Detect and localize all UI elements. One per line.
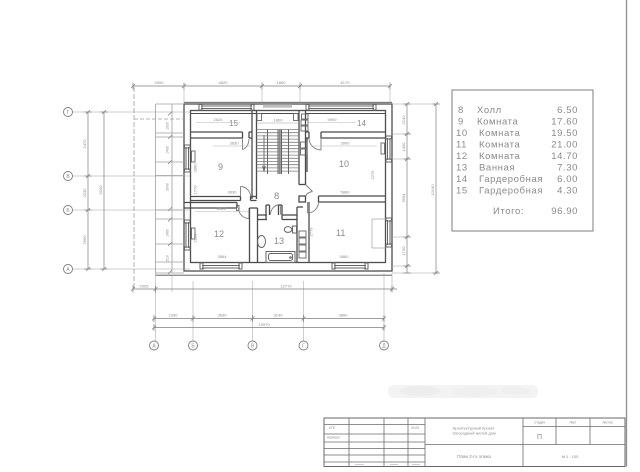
radiator room 10 right <box>381 143 385 154</box>
left axis extension lines <box>73 112 191 269</box>
svg-text:1300: 1300 <box>401 142 406 152</box>
toilet room 13 <box>284 226 296 233</box>
stair treads <box>257 130 300 172</box>
right overall dim text <box>430 184 435 196</box>
room 12 label <box>214 229 224 239</box>
svg-text:5860: 5860 <box>340 254 350 259</box>
svg-text:1800: 1800 <box>277 80 287 85</box>
page border right <box>626 0 628 467</box>
door hall to 10 <box>306 185 313 197</box>
niche line room 11 <box>372 219 386 248</box>
exterior wall outer outline <box>184 104 392 271</box>
hall right wall <box>299 172 306 202</box>
legend table box <box>452 90 593 231</box>
radiator room 9 left <box>192 151 196 162</box>
window left wall room 9 <box>185 145 191 172</box>
bottom dim row 3 <box>152 324 386 331</box>
svg-text:Стадия: Стадия <box>534 421 545 425</box>
svg-text:10140: 10140 <box>430 184 435 196</box>
svg-text:1510: 1510 <box>166 255 170 263</box>
left dim chain 1 <box>85 110 92 271</box>
svg-text:Ванная: Ванная <box>479 163 515 174</box>
axis circle bottom G <box>299 341 308 350</box>
axis circle left V <box>64 172 73 181</box>
svg-text:10: 10 <box>339 159 349 169</box>
stair stringer <box>268 130 289 175</box>
axis circle left G <box>64 108 73 117</box>
svg-text:СПГ: СПГ <box>329 426 336 430</box>
left dim chain 2 <box>101 110 108 271</box>
wall room 12 top <box>184 203 237 209</box>
room 10 dims <box>313 141 377 195</box>
bathtub room 13 <box>266 252 295 263</box>
stairwell left wall <box>252 111 257 200</box>
wall rooms 13/11 divider with vent shafts <box>297 202 309 263</box>
top dim extension lines <box>184 90 390 105</box>
svg-text:Гардеробная: Гардеробная <box>479 186 543 197</box>
stair arrow <box>263 135 266 171</box>
svg-text:17.60: 17.60 <box>551 117 578 128</box>
svg-text:9100: 9100 <box>98 185 103 195</box>
svg-text:03.05: 03.05 <box>411 426 419 430</box>
svg-text:9: 9 <box>218 162 223 172</box>
svg-text:3630: 3630 <box>230 141 240 146</box>
window bottom wall room 12 <box>200 263 242 269</box>
door room 15 <box>243 138 250 150</box>
door room 14 <box>309 138 321 150</box>
window right wall room 11 <box>386 218 392 247</box>
svg-text:Гардеробная: Гардеробная <box>479 174 543 185</box>
axis circle bottom labels <box>152 344 386 350</box>
exterior wall inner outline <box>191 111 386 263</box>
svg-text:Лист: Лист <box>570 421 577 425</box>
title block outer <box>324 418 625 467</box>
svg-text:3140: 3140 <box>274 313 284 318</box>
room 14 dim <box>308 117 356 123</box>
stair window grey <box>263 104 292 107</box>
svg-text:3630: 3630 <box>218 313 228 318</box>
svg-text:Итого:: Итого: <box>493 206 524 217</box>
svg-text:Листов: Листов <box>602 421 613 425</box>
svg-text:13970: 13970 <box>258 322 270 327</box>
room 15 label <box>229 119 238 128</box>
wall under room 15 <box>191 132 253 138</box>
legend rows <box>456 105 578 197</box>
svg-text:1460: 1460 <box>166 146 170 154</box>
window top wall room 14 <box>306 105 376 111</box>
room 8 label <box>274 191 279 202</box>
door hall to 11 <box>308 202 319 213</box>
svg-text:Комната: Комната <box>479 140 521 151</box>
svg-text:Комната: Комната <box>479 128 521 139</box>
window bottom wall room 11 <box>332 263 368 269</box>
svg-text:Комната: Комната <box>477 117 519 128</box>
svg-text:1460: 1460 <box>166 229 170 237</box>
svg-text:11: 11 <box>456 140 467 151</box>
svg-text:2140: 2140 <box>401 115 406 125</box>
axis circle bottom D <box>380 341 389 350</box>
vent boxes near stairwell top left <box>257 114 298 121</box>
svg-text:12: 12 <box>456 151 468 162</box>
room 11 dims <box>309 227 350 259</box>
room 11 label <box>336 228 345 238</box>
svg-text:Г: Г <box>67 110 70 116</box>
wall rooms 10/11 divider <box>319 196 386 202</box>
svg-text:2030: 2030 <box>82 188 87 198</box>
svg-text:2180: 2180 <box>193 233 198 243</box>
svg-text:2640: 2640 <box>166 183 170 191</box>
title block left grid verticals <box>349 418 425 467</box>
title block signature marks <box>355 464 420 466</box>
wall room 9 bottom <box>191 197 257 201</box>
title block stage headers <box>534 421 613 425</box>
room 10 label <box>339 159 349 169</box>
door jamb box room 12 <box>237 206 240 211</box>
svg-text:10: 10 <box>456 128 468 139</box>
room top inner lines <box>191 113 386 115</box>
svg-text:14.70: 14.70 <box>551 151 578 162</box>
right dim extension lines <box>392 104 440 273</box>
wall under room 14 <box>306 132 386 138</box>
radiator room 12 left <box>192 228 196 239</box>
stair top dim 1800 <box>257 118 300 124</box>
vent boxes room 14 left <box>301 114 308 131</box>
svg-text:21.00: 21.00 <box>551 140 578 151</box>
svg-text:5900: 5900 <box>328 117 338 122</box>
svg-text:19.50: 19.50 <box>551 128 578 139</box>
title block sheet name <box>457 454 491 459</box>
svg-text:4.30: 4.30 <box>557 186 578 197</box>
door stub hall to 13 left <box>266 205 270 220</box>
room 10 left wall <box>306 138 308 172</box>
door room 12 <box>239 208 250 219</box>
window top wall room 15 <box>199 105 254 111</box>
window left wall room 12 <box>185 220 191 250</box>
wall rooms 12/13 divider <box>250 208 258 263</box>
svg-text:2880: 2880 <box>193 163 198 173</box>
svg-text:2330: 2330 <box>169 313 179 318</box>
room 9 dims <box>193 141 253 195</box>
svg-text:3630: 3630 <box>228 190 238 195</box>
axis circle bottom V <box>248 341 257 350</box>
right dim chain texts <box>401 115 406 256</box>
svg-text:2779: 2779 <box>309 227 314 237</box>
title block scale <box>562 454 579 459</box>
annex dim chain ticks <box>168 112 172 275</box>
svg-text:Комната: Комната <box>479 151 521 162</box>
stairwell right wall <box>299 111 306 173</box>
svg-text:Г: Г <box>302 344 305 350</box>
room 12 top dim <box>195 206 249 212</box>
svg-text:4820: 4820 <box>219 80 229 85</box>
right overall dim <box>433 102 440 275</box>
bottom dim extension lines <box>156 273 393 341</box>
svg-text:6.00: 6.00 <box>557 174 578 185</box>
svg-text:Холл: Холл <box>477 105 502 116</box>
bottom dim row 2 texts <box>169 313 349 318</box>
svg-text:7.30: 7.30 <box>557 163 578 174</box>
svg-text:8: 8 <box>274 191 279 202</box>
bottom dim row 3 text <box>258 322 270 327</box>
top dimension row <box>131 83 392 90</box>
svg-text:13: 13 <box>274 236 284 246</box>
svg-text:6170: 6170 <box>341 80 351 85</box>
svg-text:6.50: 6.50 <box>557 105 578 116</box>
axis circle left B <box>64 206 73 215</box>
svg-text:12770: 12770 <box>280 284 292 289</box>
svg-text:1920: 1920 <box>166 122 170 130</box>
svg-text:13: 13 <box>456 163 468 174</box>
svg-text:3900: 3900 <box>341 141 351 146</box>
axis circle bottom A <box>150 341 159 350</box>
svg-text:2005: 2005 <box>140 284 150 289</box>
svg-text:2000: 2000 <box>155 80 165 85</box>
door room 9 <box>241 187 251 197</box>
room 14 label <box>357 119 366 128</box>
svg-text:15: 15 <box>456 186 468 197</box>
svg-text:12: 12 <box>214 229 224 239</box>
svg-text:Написал: Написал <box>327 436 340 440</box>
svg-text:8: 8 <box>458 105 464 116</box>
svg-text:3904: 3904 <box>401 193 406 203</box>
svg-text:15: 15 <box>229 119 238 128</box>
svg-text:2279: 2279 <box>370 170 375 180</box>
svg-text:1800: 1800 <box>274 118 284 123</box>
svg-text:2690: 2690 <box>82 235 87 245</box>
svg-text:3660: 3660 <box>339 313 349 318</box>
window right wall room 10 <box>386 136 392 162</box>
svg-text:3554: 3554 <box>217 206 227 211</box>
bottom dim row 1 texts <box>140 284 293 289</box>
svg-text:1770: 1770 <box>193 185 198 195</box>
wall room 13 top <box>258 215 298 220</box>
washbasin room 13 <box>258 236 266 248</box>
axis circle bottom B <box>189 341 198 350</box>
svg-text:5880: 5880 <box>341 190 351 195</box>
left dim chain 1 texts <box>82 139 87 245</box>
svg-text:14: 14 <box>456 174 468 185</box>
title block stage letter <box>537 434 542 441</box>
vent boxes room 10 left <box>301 142 308 155</box>
svg-text:М 1 : 100: М 1 : 100 <box>562 454 579 459</box>
title block left grid rows <box>324 425 425 463</box>
svg-text:96.90: 96.90 <box>551 206 578 217</box>
title block project name <box>452 426 496 436</box>
svg-text:11: 11 <box>336 228 345 238</box>
room 12 dims <box>193 233 228 259</box>
svg-text:9: 9 <box>458 117 464 128</box>
svg-text:План 2-го этажа: План 2-го этажа <box>457 454 491 459</box>
door stub hall to 13 right <box>279 205 283 220</box>
svg-text:14: 14 <box>357 119 366 128</box>
title block right verticals <box>425 418 625 467</box>
left dim chain 2 text <box>98 185 103 195</box>
room 13 label <box>274 236 284 246</box>
svg-text:2620: 2620 <box>214 117 224 122</box>
bottom dim row 2 <box>152 315 386 322</box>
bottom dim row 1 <box>131 286 397 293</box>
room 9 label <box>218 162 223 172</box>
left annex strip <box>134 87 184 289</box>
title block texts <box>327 426 419 440</box>
svg-text:1730: 1730 <box>401 246 406 256</box>
svg-text:Загородный жилой дом: Загородный жилой дом <box>452 431 496 436</box>
door hall to 13 <box>271 205 281 215</box>
scan ghost smudge <box>388 385 538 398</box>
axis circle left labels <box>66 110 70 273</box>
annex dim chain texts <box>166 122 170 263</box>
svg-text:П: П <box>537 434 542 441</box>
top dim texts <box>155 80 351 85</box>
legend total <box>493 206 578 217</box>
room 15 dim <box>196 117 240 123</box>
right dim chain <box>404 102 411 273</box>
axis circle left A <box>64 265 73 274</box>
svg-text:3564: 3564 <box>218 254 228 259</box>
exterior wall double edges <box>156 102 393 275</box>
svg-text:2470: 2470 <box>82 139 87 149</box>
